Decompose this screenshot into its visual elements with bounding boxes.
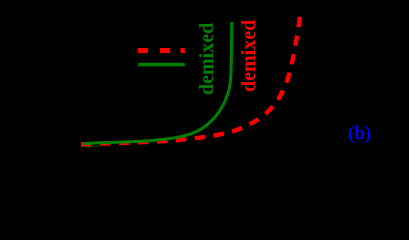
red rotated label: demixed	[238, 22, 260, 92]
faint curve-origin tail (dim red/green blend)	[81, 145, 92, 147]
green rotated label: demixed	[196, 25, 218, 95]
blue panel label (b)	[348, 123, 371, 145]
legend green solid line sample	[138, 63, 185, 67]
red dashed phase-boundary curve	[81, 17, 300, 144]
green solid phase-boundary curve	[83, 22, 232, 144]
legend red dashed line sample	[138, 48, 185, 53]
